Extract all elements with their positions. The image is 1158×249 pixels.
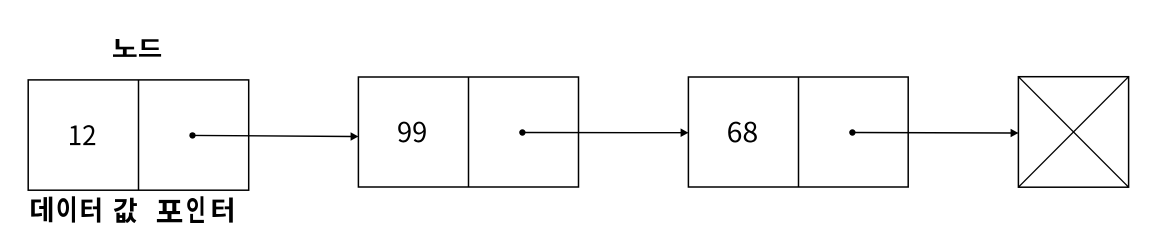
NULL terminator box	[1018, 77, 1128, 188]
pointer arrow wire from node 2	[522, 132, 682, 134]
node box 2: cell divider	[468, 77, 470, 187]
pointer arrow wire from node 1	[193, 135, 353, 136]
pointer dot in node 1	[189, 132, 195, 138]
value text 12	[70, 125, 95, 145]
pointer arrow wire from node 3	[852, 132, 1012, 135]
arrowhead into next node after 3	[1011, 129, 1019, 138]
node box 1: outer rectangle	[28, 80, 249, 190]
value text 99	[398, 122, 426, 143]
pointer dot in node 3	[849, 129, 855, 135]
node box 3: outer rectangle	[688, 77, 908, 187]
label glyph IN (인)	[187, 196, 204, 223]
label glyph TEO (터) second	[212, 197, 232, 222]
pointer dot in node 2	[519, 129, 525, 135]
label glyph I (이)	[58, 196, 75, 222]
node box 3: cell divider	[798, 77, 800, 187]
title glyph DEU (드)	[139, 39, 161, 56]
arrowhead into next node after 2	[681, 128, 689, 137]
node box 1: cell divider	[138, 80, 140, 190]
NULL X diagonal \	[1018, 77, 1128, 188]
label glyph GAP (값)	[114, 198, 137, 223]
value text 68	[728, 122, 757, 143]
title glyph NO (노)	[113, 39, 137, 57]
NULL X diagonal /	[1018, 77, 1128, 188]
label glyph TEO (터)	[81, 197, 100, 222]
arrowhead into next node after 1	[351, 132, 359, 141]
label glyph PO (포)	[157, 200, 182, 222]
label glyph DE (데)	[31, 197, 52, 223]
node box 2: outer rectangle	[358, 77, 578, 187]
